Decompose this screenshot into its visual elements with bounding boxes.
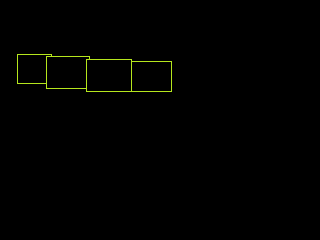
rectangle 3 [87,60,132,92]
rectangle 4 [132,62,172,92]
rectangle 2 [47,57,90,89]
rectangle 1 [18,55,52,84]
